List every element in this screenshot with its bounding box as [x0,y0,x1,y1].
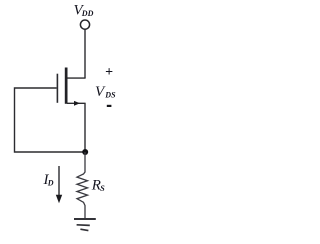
label RS [91,178,105,194]
label VDS [95,84,116,100]
transistor M1 [57,68,85,106]
label ID [43,172,54,188]
svg-text:S: S [100,184,105,193]
VDD terminal [80,20,89,29]
label VDD [74,3,94,19]
ground [74,219,96,231]
resistor RS [77,152,88,219]
wire VDD to drain [84,30,86,79]
wire source down [84,103,86,152]
svg-text:DD: DD [81,9,94,18]
current arrow ID [56,166,62,203]
svg-text:DS: DS [104,91,116,100]
label minus [107,105,112,107]
svg-text:D: D [47,179,54,188]
wire gate feedback [15,88,86,152]
node source junction [82,149,88,155]
svg-text:+: + [105,65,113,80]
